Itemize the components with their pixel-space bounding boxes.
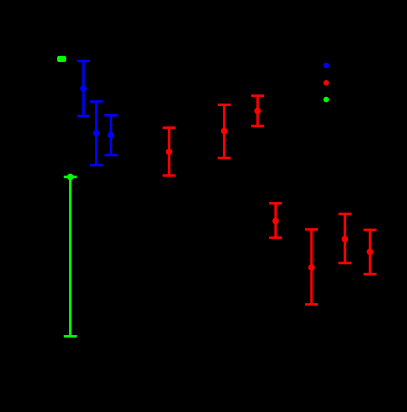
blue point B2 [93,130,100,137]
red point R5 [308,264,315,271]
red point R6 [342,236,349,243]
green point G2 [67,174,74,181]
red error bar R6 [338,214,351,263]
legend dot red [323,80,329,86]
blue error bar B2 [90,102,103,166]
green error bar G2 [64,177,77,336]
legend dot blue [323,63,329,69]
red error bar R7 [364,230,377,274]
red error bar R5 [305,229,318,304]
red error bar R4 [269,203,282,237]
blue error bar B1 [77,61,90,116]
red point R4 [272,218,279,225]
red point R3 [254,108,261,115]
red error bar R1 [163,128,176,176]
green point G1 with tiny error bar (top-left) [57,56,66,62]
red error bar R3 [251,96,264,126]
red error bar R2 [218,105,231,158]
blue error bar B3 [104,115,117,155]
blue point B3 [108,132,115,139]
blue point B1 [80,85,87,92]
legend dot green [323,97,329,103]
red point R2 [221,128,228,135]
red point R1 [166,149,173,156]
red point R7 [367,249,374,256]
